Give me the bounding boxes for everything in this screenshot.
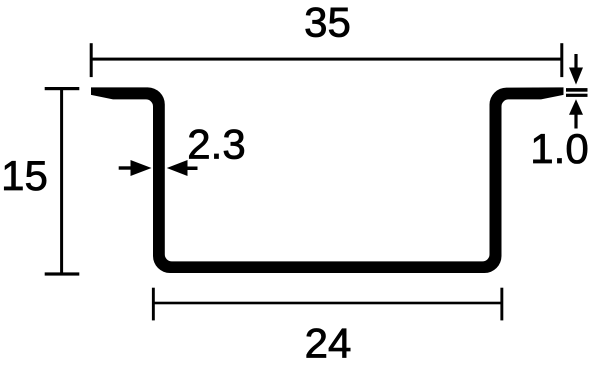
tip thickness down arrow xyxy=(569,54,583,85)
svg-text:15: 15 xyxy=(1,152,48,199)
tip thickness up arrow xyxy=(569,99,583,128)
dimension 35 right tick xyxy=(560,43,563,77)
dimension 24 left tick xyxy=(152,288,155,321)
wall thickness right arrow xyxy=(167,160,198,176)
rail profile outline (top-hat cross-section) xyxy=(91,87,564,273)
dimension 24 right tick xyxy=(500,288,503,321)
dimension 35 left tick xyxy=(90,43,93,77)
svg-text:35: 35 xyxy=(304,0,351,46)
dimension line 24 xyxy=(153,302,502,305)
svg-text:2.3: 2.3 xyxy=(187,121,245,168)
wall thickness left arrow xyxy=(119,160,152,176)
svg-text:24: 24 xyxy=(305,320,352,367)
svg-text:1.0: 1.0 xyxy=(530,125,588,172)
dimension line 35 xyxy=(91,58,563,61)
flange tip outline lines (= mark at right tip) xyxy=(566,88,588,92)
dimension line 15 xyxy=(60,89,63,274)
dimension 15 bottom tick xyxy=(45,272,80,275)
dimension 15 top tick xyxy=(45,87,80,90)
